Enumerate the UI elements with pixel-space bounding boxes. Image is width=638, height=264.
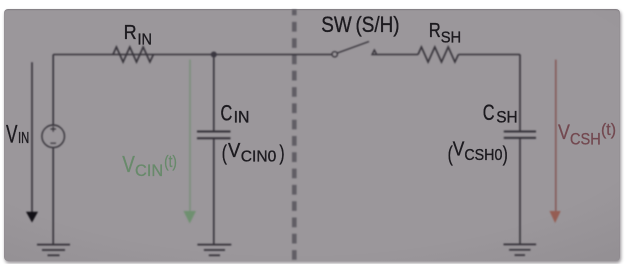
svg-text:CIN: CIN — [135, 161, 163, 180]
svg-text:R: R — [429, 20, 441, 42]
svg-text:SW (S/H): SW (S/H) — [321, 12, 399, 37]
svg-text:(: ( — [222, 142, 227, 165]
svg-text:IN: IN — [234, 109, 250, 127]
svg-text:(t): (t) — [164, 153, 177, 171]
svg-text:V: V — [228, 140, 241, 162]
svg-text:C: C — [221, 101, 233, 126]
svg-text:): ) — [279, 142, 284, 165]
svg-text:CSH: CSH — [570, 130, 601, 148]
svg-text:V: V — [453, 139, 465, 161]
svg-text:CIN0: CIN0 — [241, 149, 277, 166]
svg-text:(t): (t) — [601, 121, 616, 139]
svg-text:V: V — [122, 151, 135, 177]
svg-text:SH: SH — [496, 109, 517, 127]
svg-text:SH: SH — [441, 30, 462, 47]
svg-text:V: V — [6, 121, 18, 149]
svg-text:IN: IN — [18, 130, 29, 147]
svg-text:V: V — [558, 121, 570, 144]
svg-text:IN: IN — [138, 32, 153, 49]
svg-text:C: C — [483, 100, 495, 125]
svg-text:CSH0: CSH0 — [464, 147, 502, 164]
svg-text:): ) — [503, 143, 508, 166]
svg-text:R: R — [124, 22, 137, 44]
